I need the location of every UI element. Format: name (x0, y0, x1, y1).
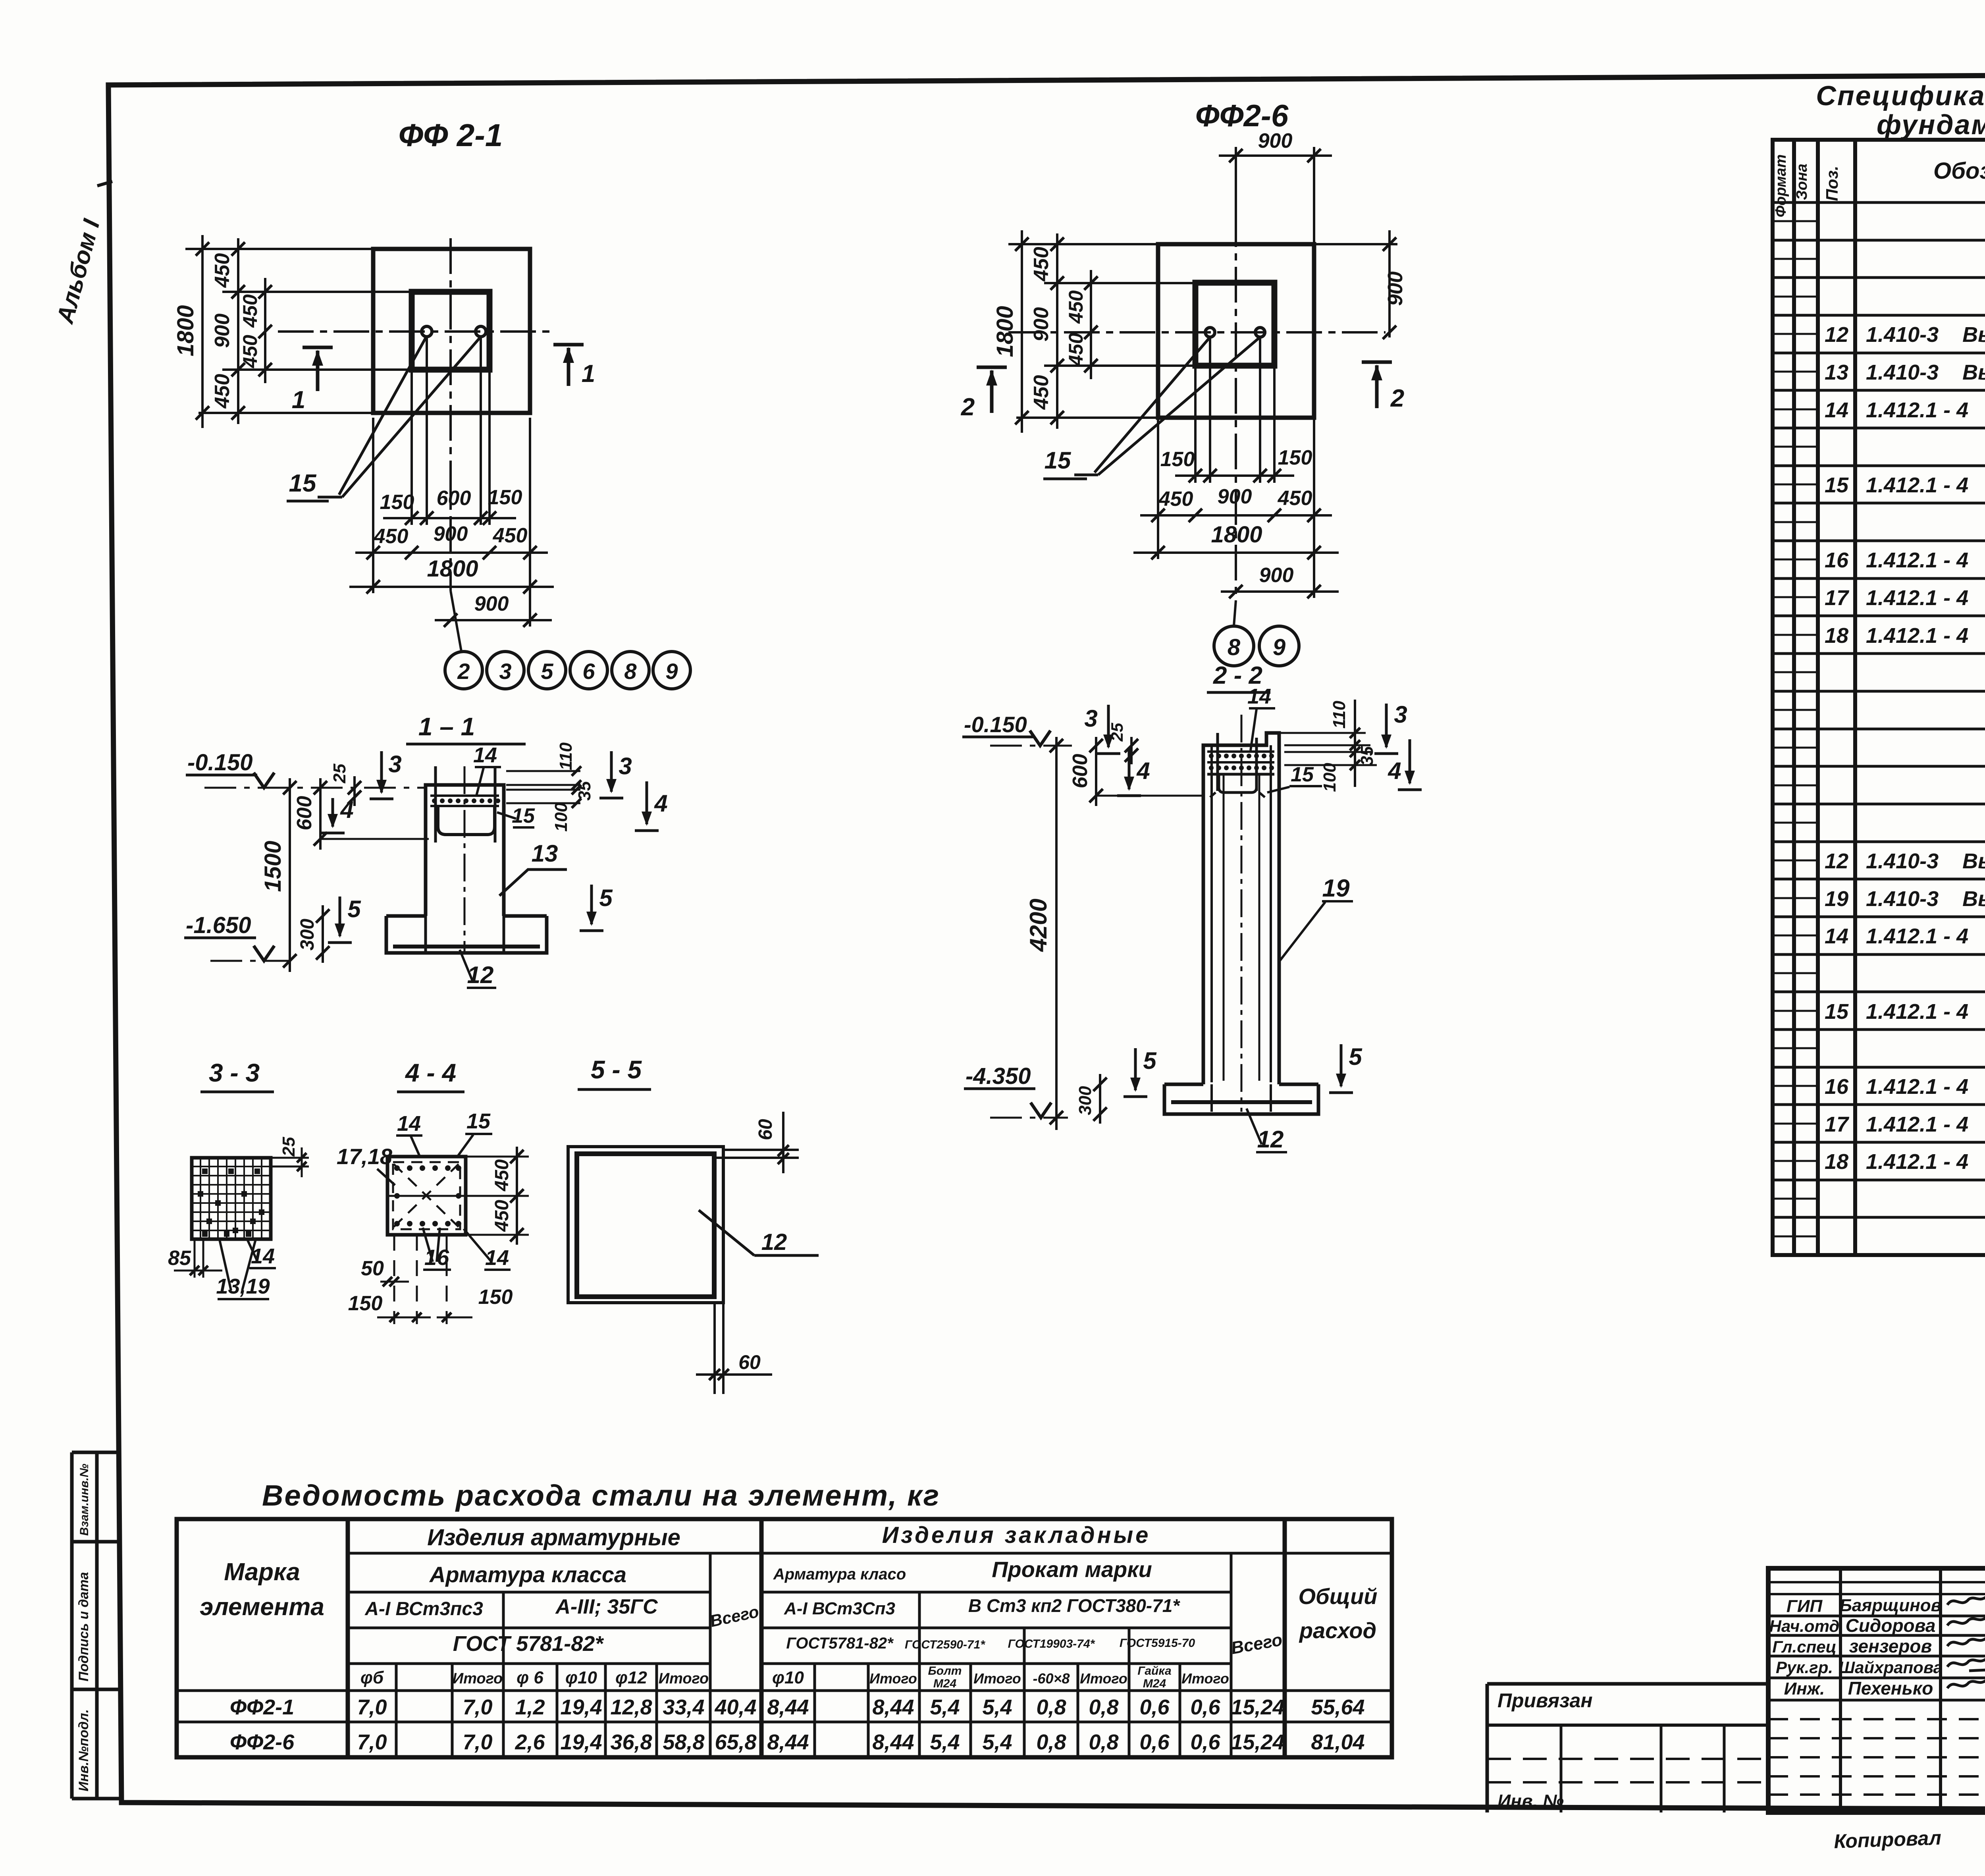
svg-text:450: 450 (211, 374, 234, 409)
svg-text:Обозначение: Обозначение (1933, 158, 1985, 184)
svg-text:5: 5 (541, 659, 553, 684)
svg-text:4: 4 (340, 796, 353, 823)
svg-text:Нач.отд: Нач.отд (1769, 1617, 1840, 1635)
svg-text:3: 3 (1394, 701, 1407, 728)
svg-text:1,2: 1,2 (515, 1695, 545, 1719)
svg-text:16: 16 (1825, 1075, 1849, 1099)
svg-text:25: 25 (279, 1137, 299, 1157)
section 2-2 dim 25 (1130, 737, 1133, 764)
svg-text:14: 14 (1247, 684, 1271, 708)
svg-text:0,6: 0,6 (1139, 1730, 1170, 1754)
plan FF2-6 right dim 900 (1314, 243, 1397, 245)
section 4-4 bottom extensions (393, 1235, 395, 1324)
svg-text:0,6: 0,6 (1139, 1695, 1170, 1719)
svg-text:5: 5 (1143, 1047, 1157, 1074)
section 1-1 footing (386, 916, 547, 953)
svg-text:6: 6 (582, 659, 595, 684)
svg-text:100: 100 (551, 802, 571, 832)
svg-text:900: 900 (1384, 272, 1407, 306)
svg-text:1.412.1 - 4: 1.412.1 - 4 (1866, 473, 1968, 497)
svg-text:5,4: 5,4 (982, 1730, 1012, 1754)
svg-text:ГИП: ГИП (1786, 1596, 1823, 1616)
svg-text:1.412.1 - 4: 1.412.1 - 4 (1866, 548, 1968, 572)
svg-text:17: 17 (1825, 1112, 1850, 1136)
svg-text:13: 13 (532, 840, 558, 867)
svg-text:расход: расход (1299, 1618, 1376, 1643)
svg-text:7,0: 7,0 (357, 1730, 387, 1754)
title block rows left (1768, 1581, 1985, 1583)
svg-text:Прокат марки: Прокат марки (992, 1557, 1152, 1582)
svg-text:φб: φб (360, 1668, 384, 1687)
svg-text:ФФ 2-1: ФФ 2-1 (399, 118, 503, 153)
svg-text:1.410-3 Вып.1: 1.410-3 Вып.1 (1866, 849, 1985, 873)
svg-text:Инв.№подл.: Инв.№подл. (76, 1709, 91, 1791)
plan FF2-1 dim 900 bottom (529, 593, 531, 627)
svg-text:900: 900 (474, 592, 509, 615)
svg-text:150: 150 (348, 1292, 383, 1315)
svg-text:55,64: 55,64 (1311, 1695, 1364, 1719)
svg-text:1.412.1 - 4: 1.412.1 - 4 (1866, 1000, 1968, 1024)
svg-text:3 - 3: 3 - 3 (209, 1059, 260, 1087)
svg-text:19: 19 (1322, 875, 1350, 902)
plan FF2-6 anchor bolt left (1205, 328, 1215, 337)
svg-text:50: 50 (361, 1257, 384, 1280)
svg-text:Сидорова: Сидорова (1846, 1615, 1936, 1636)
svg-text:Итого: Итого (1080, 1670, 1127, 1687)
plan FF2-6 dim 450-450 inner (1090, 270, 1092, 379)
svg-text:φ10: φ10 (772, 1668, 804, 1687)
svg-text:17,18: 17,18 (337, 1144, 393, 1169)
section 1-1 embedded mesh (430, 794, 499, 797)
plan FF2-6 leader 15 (1095, 337, 1210, 472)
svg-text:17: 17 (1825, 586, 1850, 610)
privyazan box (1487, 1682, 1768, 1686)
section 1-1 arrow 5 right (590, 885, 593, 924)
section 2-2 arrow 4 right (1409, 739, 1411, 783)
section 4-4 mid dimension line (387, 1195, 529, 1197)
svg-text:0,6: 0,6 (1190, 1695, 1220, 1719)
section 4-4 rebar dots (394, 1165, 400, 1171)
svg-text:450: 450 (1278, 487, 1312, 510)
title block signatures (1947, 1593, 1985, 1605)
svg-text:Изделия закладные: Изделия закладные (882, 1522, 1151, 1548)
plan FF2-1 dim 1800 vertical (201, 235, 204, 428)
svg-text:-4.350: -4.350 (966, 1063, 1031, 1089)
svg-text:Рук.гр.: Рук.гр. (1776, 1658, 1833, 1677)
plan FF2-1 anchor bolt right (476, 326, 486, 337)
section 1-1 right dim stack 110-35-100 (506, 770, 580, 772)
svg-text:-0.150: -0.150 (964, 712, 1027, 737)
svg-text:Инж.: Инж. (1784, 1679, 1825, 1699)
svg-text:Взам.инв.№: Взам.инв.№ (78, 1464, 91, 1536)
plan FF2-1 outer footing square (373, 249, 530, 413)
section 4-4 diagonal ties (394, 1164, 459, 1227)
svg-text:Арматура класса: Арматура класса (429, 1562, 626, 1587)
svg-text:1.412.1 - 4: 1.412.1 - 4 (1866, 924, 1968, 948)
svg-text:Гл.спец: Гл.спец (1772, 1637, 1836, 1656)
svg-text:0,8: 0,8 (1089, 1695, 1118, 1719)
svg-text:450: 450 (1030, 375, 1053, 410)
svg-text:1: 1 (582, 360, 595, 388)
svg-text:450: 450 (491, 1200, 513, 1232)
svg-text:5,4: 5,4 (982, 1695, 1012, 1719)
plan FF2-6 dim 450-900-450 bottom (1157, 418, 1159, 559)
svg-text:2: 2 (457, 659, 470, 684)
svg-text:Итого: Итого (869, 1670, 917, 1687)
section 2-2 arrow 3 right (1385, 704, 1388, 747)
svg-text:18: 18 (1825, 624, 1848, 648)
svg-text:4: 4 (654, 790, 667, 817)
svg-text:Формат: Формат (1773, 154, 1789, 218)
svg-text:9: 9 (665, 659, 678, 684)
svg-text:9: 9 (1273, 634, 1285, 660)
section 1-1 dim 25 (353, 776, 356, 806)
svg-text:М24: М24 (933, 1677, 957, 1690)
plan FF2-1 section mark 1 left (303, 346, 333, 349)
svg-text:15: 15 (466, 1109, 491, 1133)
plan FF2-1 dim 450-900-450 bottom (372, 418, 374, 560)
svg-text:450: 450 (239, 335, 261, 368)
svg-text:8,44: 8,44 (872, 1695, 914, 1719)
plan FF2-6 outer footing square (1158, 244, 1314, 418)
plan FF2-6 dim 1800 bottom (1157, 558, 1159, 560)
svg-text:150: 150 (380, 491, 414, 514)
section 2-2 embedded mesh (1207, 750, 1274, 753)
svg-text:1.412.1 - 4: 1.412.1 - 4 (1866, 624, 1968, 648)
svg-text:5,4: 5,4 (930, 1730, 960, 1754)
svg-text:900: 900 (211, 314, 234, 348)
svg-text:8,44: 8,44 (872, 1730, 914, 1754)
section 1-1 U stirrup (438, 807, 495, 835)
svg-text:300: 300 (1075, 1086, 1095, 1115)
axis circles 8 9 (1234, 600, 1236, 626)
svg-text:450: 450 (1158, 488, 1193, 511)
svg-text:1.412.1 - 4: 1.412.1 - 4 (1866, 398, 1968, 422)
svg-text:450: 450 (239, 294, 261, 328)
svg-text:900: 900 (1030, 307, 1053, 342)
section 1-1 dim 300 (322, 905, 324, 963)
section 1-1 dim 600 (319, 778, 322, 850)
svg-text:7,0: 7,0 (463, 1695, 492, 1719)
section 1-1 arrow 5 left (339, 897, 341, 936)
section 4-4 dim 50 (380, 1281, 409, 1283)
svg-text:65,8: 65,8 (715, 1730, 756, 1754)
svg-text:1.410-3 Вып.1: 1.410-3 Вып.1 (1866, 887, 1985, 911)
svg-text:0,8: 0,8 (1089, 1730, 1118, 1754)
plan FF2-6 extension lines (1008, 243, 1158, 245)
section 4-4 right dims 450-450 (466, 1156, 529, 1158)
section 2-2 dim 300 (1099, 1074, 1101, 1124)
svg-text:3: 3 (1084, 705, 1097, 732)
svg-text:Шайхрапова: Шайхрапова (1839, 1658, 1943, 1677)
section 2-2 dim 4200 (1055, 737, 1058, 1130)
svg-text:85: 85 (168, 1247, 191, 1270)
svg-text:15: 15 (1825, 473, 1849, 497)
svg-text:-1.650: -1.650 (186, 912, 251, 938)
svg-text:12,8: 12,8 (610, 1695, 652, 1719)
plan FF2-1 dim 450-900-450 vertical (237, 238, 239, 424)
svg-text:3: 3 (619, 753, 632, 779)
svg-text:13: 13 (1825, 361, 1848, 384)
plan FF2-1 leader 15 (339, 336, 427, 495)
svg-text:Копировал: Копировал (1833, 1827, 1941, 1853)
svg-text:зензеров: зензеров (1849, 1636, 1932, 1656)
svg-text:Привязан: Привязан (1497, 1689, 1593, 1712)
svg-text:150: 150 (488, 486, 522, 509)
svg-text:1.412.1 - 4: 1.412.1 - 4 (1866, 586, 1968, 610)
svg-text:5 - 5: 5 - 5 (591, 1055, 642, 1084)
svg-text:А-III; 35ГС: А-III; 35ГС (555, 1595, 658, 1618)
svg-text:Итого: Итого (973, 1670, 1021, 1687)
svg-text:33,4: 33,4 (663, 1695, 704, 1719)
svg-text:150: 150 (1278, 446, 1312, 469)
plan FF2-6 dim 1800 vertical (1021, 230, 1023, 433)
svg-text:19,4: 19,4 (560, 1730, 602, 1754)
svg-text:М24: М24 (1143, 1677, 1166, 1690)
svg-text:Марка: Марка (224, 1558, 300, 1586)
svg-text:1.410-3 Вып.1: 1.410-3 Вып.1 (1866, 323, 1985, 347)
axis circles 2 3 5 6 8 9 (445, 652, 482, 689)
section 2-2 arrow 3 left (1107, 705, 1110, 747)
plan FF2-6 dim 150-150 (1175, 474, 1294, 477)
svg-text:900: 900 (1258, 129, 1293, 152)
svg-text:Пехенько: Пехенько (1848, 1678, 1933, 1699)
svg-text:ГОСТ19903-74*: ГОСТ19903-74* (1008, 1637, 1095, 1650)
section 2-2 U stirrup (1219, 775, 1257, 792)
svg-text:40,4: 40,4 (714, 1695, 756, 1719)
svg-text:Арматура класо: Арматура класо (773, 1566, 906, 1583)
svg-text:1800: 1800 (427, 556, 478, 582)
plan FF2-6 vertical axis (1235, 156, 1237, 600)
svg-text:110: 110 (1330, 700, 1349, 729)
svg-text:7,0: 7,0 (357, 1695, 387, 1719)
svg-text:150: 150 (478, 1286, 513, 1309)
section 5-5 leader 12 (699, 1210, 754, 1255)
plan FF2-1 dim 150-600-150 (383, 517, 516, 519)
svg-text:0,8: 0,8 (1036, 1695, 1066, 1719)
svg-text:15: 15 (289, 470, 317, 497)
svg-text:450: 450 (211, 253, 234, 288)
svg-text:ФФ2-1: ФФ2-1 (230, 1695, 294, 1719)
svg-text:15: 15 (512, 804, 535, 827)
svg-text:14: 14 (397, 1112, 421, 1136)
svg-text:150: 150 (1160, 448, 1195, 471)
plan FF2-1 axis line to circles (451, 591, 461, 651)
section 4-4 dim 150 right (437, 1317, 472, 1319)
svg-text:-60×8: -60×8 (1033, 1670, 1070, 1687)
svg-text:Гайка: Гайка (1137, 1664, 1171, 1677)
svg-text:58,8: 58,8 (663, 1730, 704, 1754)
plan FF2-1 dim 450-450 inner (264, 278, 266, 383)
section 2-2 right dim stack 110-35-100 (1279, 732, 1366, 734)
plan FF2-1 extension lines left (185, 248, 373, 250)
svg-text:8,44: 8,44 (767, 1695, 809, 1719)
svg-text:Болт: Болт (928, 1664, 962, 1677)
svg-text:Ведомость расхода стали на: Ведомость расхода стали на элемент, кг (262, 1479, 940, 1512)
svg-text:900: 900 (434, 523, 468, 546)
svg-text:81,04: 81,04 (1311, 1730, 1364, 1754)
svg-text:Итого: Итого (1181, 1670, 1229, 1687)
section 1-1 column outline (426, 785, 504, 916)
svg-text:600: 600 (293, 796, 316, 831)
svg-text:14: 14 (473, 743, 497, 767)
svg-text:4: 4 (1136, 758, 1150, 784)
svg-text:1800: 1800 (992, 306, 1018, 357)
svg-text:15: 15 (1291, 763, 1314, 786)
svg-text:19: 19 (1825, 887, 1848, 911)
svg-text:3: 3 (388, 751, 401, 777)
svg-text:60: 60 (738, 1351, 761, 1373)
section 5-5 footing plan square (568, 1147, 723, 1303)
section 1-1 arrow 3 left (380, 751, 383, 792)
svg-text:0,6: 0,6 (1190, 1730, 1220, 1754)
title block outline (1768, 1568, 1985, 1812)
section 1-1 bottom mesh 12 (393, 945, 540, 949)
svg-text:600: 600 (437, 487, 471, 510)
svg-text:элемента: элемента (200, 1593, 324, 1621)
svg-text:Зона: Зона (1794, 164, 1810, 200)
svg-text:ФФ2-6: ФФ2-6 (1195, 98, 1289, 133)
section 2-2 dim 600 (1095, 737, 1097, 806)
svg-text:Поз.: Поз. (1823, 166, 1841, 201)
plan FF2-6 section mark 2 left (977, 366, 1007, 369)
svg-text:14: 14 (1825, 398, 1848, 422)
svg-text:Спецификация монолитных желе: Спецификация монолитных железобетонных (1816, 80, 1985, 111)
section 1-1 center axis (464, 766, 466, 953)
left binding strip (70, 1452, 74, 1799)
svg-text:В Ст3 кп2 ГОСТ380-71*: В Ст3 кп2 ГОСТ380-71* (968, 1595, 1180, 1616)
plan FF2-6 horizontal axis (1008, 331, 1386, 334)
section 1-1 arrow 4 right (646, 781, 648, 824)
spec table grid (1773, 140, 1985, 1255)
svg-text:19,4: 19,4 (560, 1695, 602, 1719)
svg-text:Общий: Общий (1298, 1584, 1377, 1609)
svg-text:ГОСТ2590-71*: ГОСТ2590-71* (905, 1638, 985, 1651)
svg-text:450: 450 (491, 1159, 513, 1192)
plan FF2-6 dim 900 bottom (1313, 559, 1315, 598)
svg-text:φ 6: φ 6 (516, 1668, 543, 1687)
section 3-3 dim 25 (271, 1157, 309, 1159)
svg-text:ГОСТ 5781-82*: ГОСТ 5781-82* (453, 1632, 605, 1656)
section 2-2 footing (1164, 1084, 1318, 1114)
section 4-4 inner dashed cage (393, 1162, 460, 1229)
svg-text:Изделия арматурные: Изделия арматурные (427, 1525, 680, 1550)
svg-text:Итого: Итого (659, 1670, 709, 1687)
section 4-4 column square (387, 1157, 466, 1235)
svg-text:5: 5 (599, 885, 613, 911)
svg-text:18: 18 (1825, 1150, 1848, 1174)
svg-text:15: 15 (1045, 447, 1072, 474)
svg-text:1.412.1 - 4: 1.412.1 - 4 (1866, 1150, 1968, 1174)
svg-text:0,8: 0,8 (1036, 1730, 1066, 1754)
svg-text:А-I ВСт3Сп3: А-I ВСт3Сп3 (784, 1599, 895, 1618)
svg-text:1.412.1 - 4: 1.412.1 - 4 (1866, 1075, 1968, 1099)
svg-text:8,44: 8,44 (767, 1730, 809, 1754)
svg-text:35: 35 (1357, 746, 1377, 765)
section 1-1 arrow 3 right (610, 751, 613, 792)
svg-text:35: 35 (575, 781, 594, 800)
svg-text:12: 12 (761, 1229, 787, 1255)
section 2-2 arrow 5 left (1134, 1048, 1137, 1090)
svg-text:4200: 4200 (1025, 898, 1052, 952)
plan FF2-6 bolt extension lines (1209, 337, 1211, 483)
section 3-3 mesh grid (192, 1158, 271, 1239)
svg-text:1: 1 (292, 386, 305, 414)
section 2-2 column outline (1203, 733, 1279, 1084)
section 1-1 dim 1500 (289, 778, 291, 972)
svg-text:1.410-3 Вып.1: 1.410-3 Вып.1 (1866, 361, 1985, 384)
svg-text:12: 12 (1825, 849, 1848, 873)
svg-text:110: 110 (556, 742, 576, 770)
svg-text:фундаментов ФФ2-1; ФФ2-6: фундаментов ФФ2-1; ФФ2-6 (1877, 109, 1985, 140)
svg-text:8: 8 (624, 659, 637, 684)
section 2-2 center axis (1241, 715, 1243, 1112)
section 2-2 arrow 5 right (1340, 1044, 1343, 1086)
svg-text:2: 2 (961, 393, 975, 421)
svg-text:450: 450 (493, 524, 528, 547)
plan FF2-1 vertical axis (449, 238, 452, 591)
plan FF2-6 inner column square (1195, 283, 1274, 366)
svg-text:2,6: 2,6 (515, 1730, 545, 1754)
svg-text:φ12: φ12 (615, 1668, 647, 1687)
svg-text:4: 4 (1388, 758, 1401, 784)
svg-text:φ10: φ10 (565, 1668, 597, 1687)
svg-text:36,8: 36,8 (610, 1730, 652, 1754)
svg-text:Подпись и дата: Подпись и дата (76, 1572, 91, 1681)
svg-text:450: 450 (1065, 290, 1087, 324)
svg-text:5,4: 5,4 (930, 1695, 960, 1719)
plan FF2-6 top dim 900 (1235, 147, 1237, 244)
section 1-1 arrow 4 left (331, 798, 334, 827)
plan FF2-6 anchor bolt right (1255, 328, 1265, 337)
svg-text:900: 900 (1218, 485, 1252, 508)
svg-text:450: 450 (1065, 333, 1087, 366)
section 3-3 dim 85 (194, 1239, 196, 1278)
svg-text:900: 900 (1259, 564, 1294, 587)
plan FF2-6 dim 450-900-450 vertical (1056, 233, 1058, 429)
plan FF2-1 bolt extension lines (426, 337, 428, 525)
svg-text:12: 12 (1257, 1126, 1284, 1153)
svg-text:600: 600 (1069, 754, 1092, 789)
svg-text:1800: 1800 (1211, 522, 1262, 548)
svg-text:ФФ2-6: ФФ2-6 (230, 1730, 295, 1754)
svg-text:450: 450 (374, 525, 409, 548)
section 2-2 rebar bars (1216, 733, 1219, 791)
svg-text:1 – 1: 1 – 1 (418, 712, 475, 741)
svg-text:Инв. №: Инв. № (1497, 1791, 1564, 1811)
svg-text:Итого: Итого (453, 1670, 503, 1687)
svg-text:Баярщинов: Баярщинов (1840, 1596, 1941, 1615)
svg-text:15,24: 15,24 (1231, 1730, 1284, 1754)
svg-text:ГОСТ5915-70: ГОСТ5915-70 (1120, 1637, 1195, 1650)
section 5-5 dim 60 bottom (713, 1303, 716, 1394)
plan FF2-1 dim 1800 bottom (372, 560, 374, 593)
svg-text:ГОСТ5781-82*: ГОСТ5781-82* (786, 1635, 894, 1652)
plan FF2-1 anchor bolt left (422, 326, 432, 337)
section 2-2 arrow 4 left (1128, 748, 1131, 789)
svg-text:1.412.1 - 4: 1.412.1 - 4 (1866, 1112, 1968, 1136)
svg-text:25: 25 (330, 764, 349, 783)
svg-text:3: 3 (499, 659, 511, 684)
svg-text:4 - 4: 4 - 4 (405, 1059, 456, 1087)
svg-text:5: 5 (1349, 1043, 1363, 1070)
svg-text:12: 12 (1825, 323, 1848, 347)
section 4-4 dim 150 left (377, 1317, 431, 1319)
section 2-2 bottom mesh 12 (1171, 1100, 1312, 1104)
steel table grid (177, 1519, 1392, 1757)
svg-text:1500: 1500 (260, 841, 286, 892)
svg-text:15,24: 15,24 (1231, 1695, 1284, 1719)
